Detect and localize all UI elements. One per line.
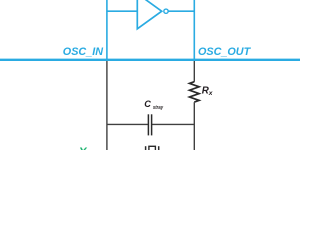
svg-text:C: C — [144, 99, 151, 109]
wire: horizontal cyan bus — [0, 59, 300, 61]
crystal X1 right plate (cut off at bottom) — [158, 146, 160, 150]
svg-text:stray: stray — [153, 105, 164, 111]
svg-text:x: x — [208, 90, 213, 97]
wire: right cyan rail (OSC_OUT rail, top) — [193, 0, 195, 60]
wire: right dark rail upper segment — [193, 61, 195, 82]
wire: left dark rail (below bus) — [106, 61, 108, 150]
wire: capacitor branch right — [152, 123, 194, 125]
wire: inverter output — [168, 10, 194, 12]
svg-text:OSC_IN: OSC_IN — [63, 46, 103, 58]
capacitor Cstray plates — [147, 114, 149, 135]
resistor Rx zigzag — [190, 82, 200, 102]
inverter U1 (triangle, top cut off) — [137, 0, 161, 29]
crystal X1 left plate (cut off at bottom) — [145, 146, 147, 150]
inverter bubble — [164, 9, 168, 13]
wire: right dark rail lower segment — [193, 102, 195, 150]
wire: left cyan rail (OSC_IN rail, top) — [106, 0, 108, 60]
wire: inverter input — [107, 10, 137, 12]
crystal X1 body rectangle (cut off) — [149, 146, 156, 152]
svg-text:X: X — [78, 145, 88, 150]
svg-text:OSC_OUT: OSC_OUT — [198, 46, 252, 58]
wire: capacitor branch left — [107, 123, 148, 125]
